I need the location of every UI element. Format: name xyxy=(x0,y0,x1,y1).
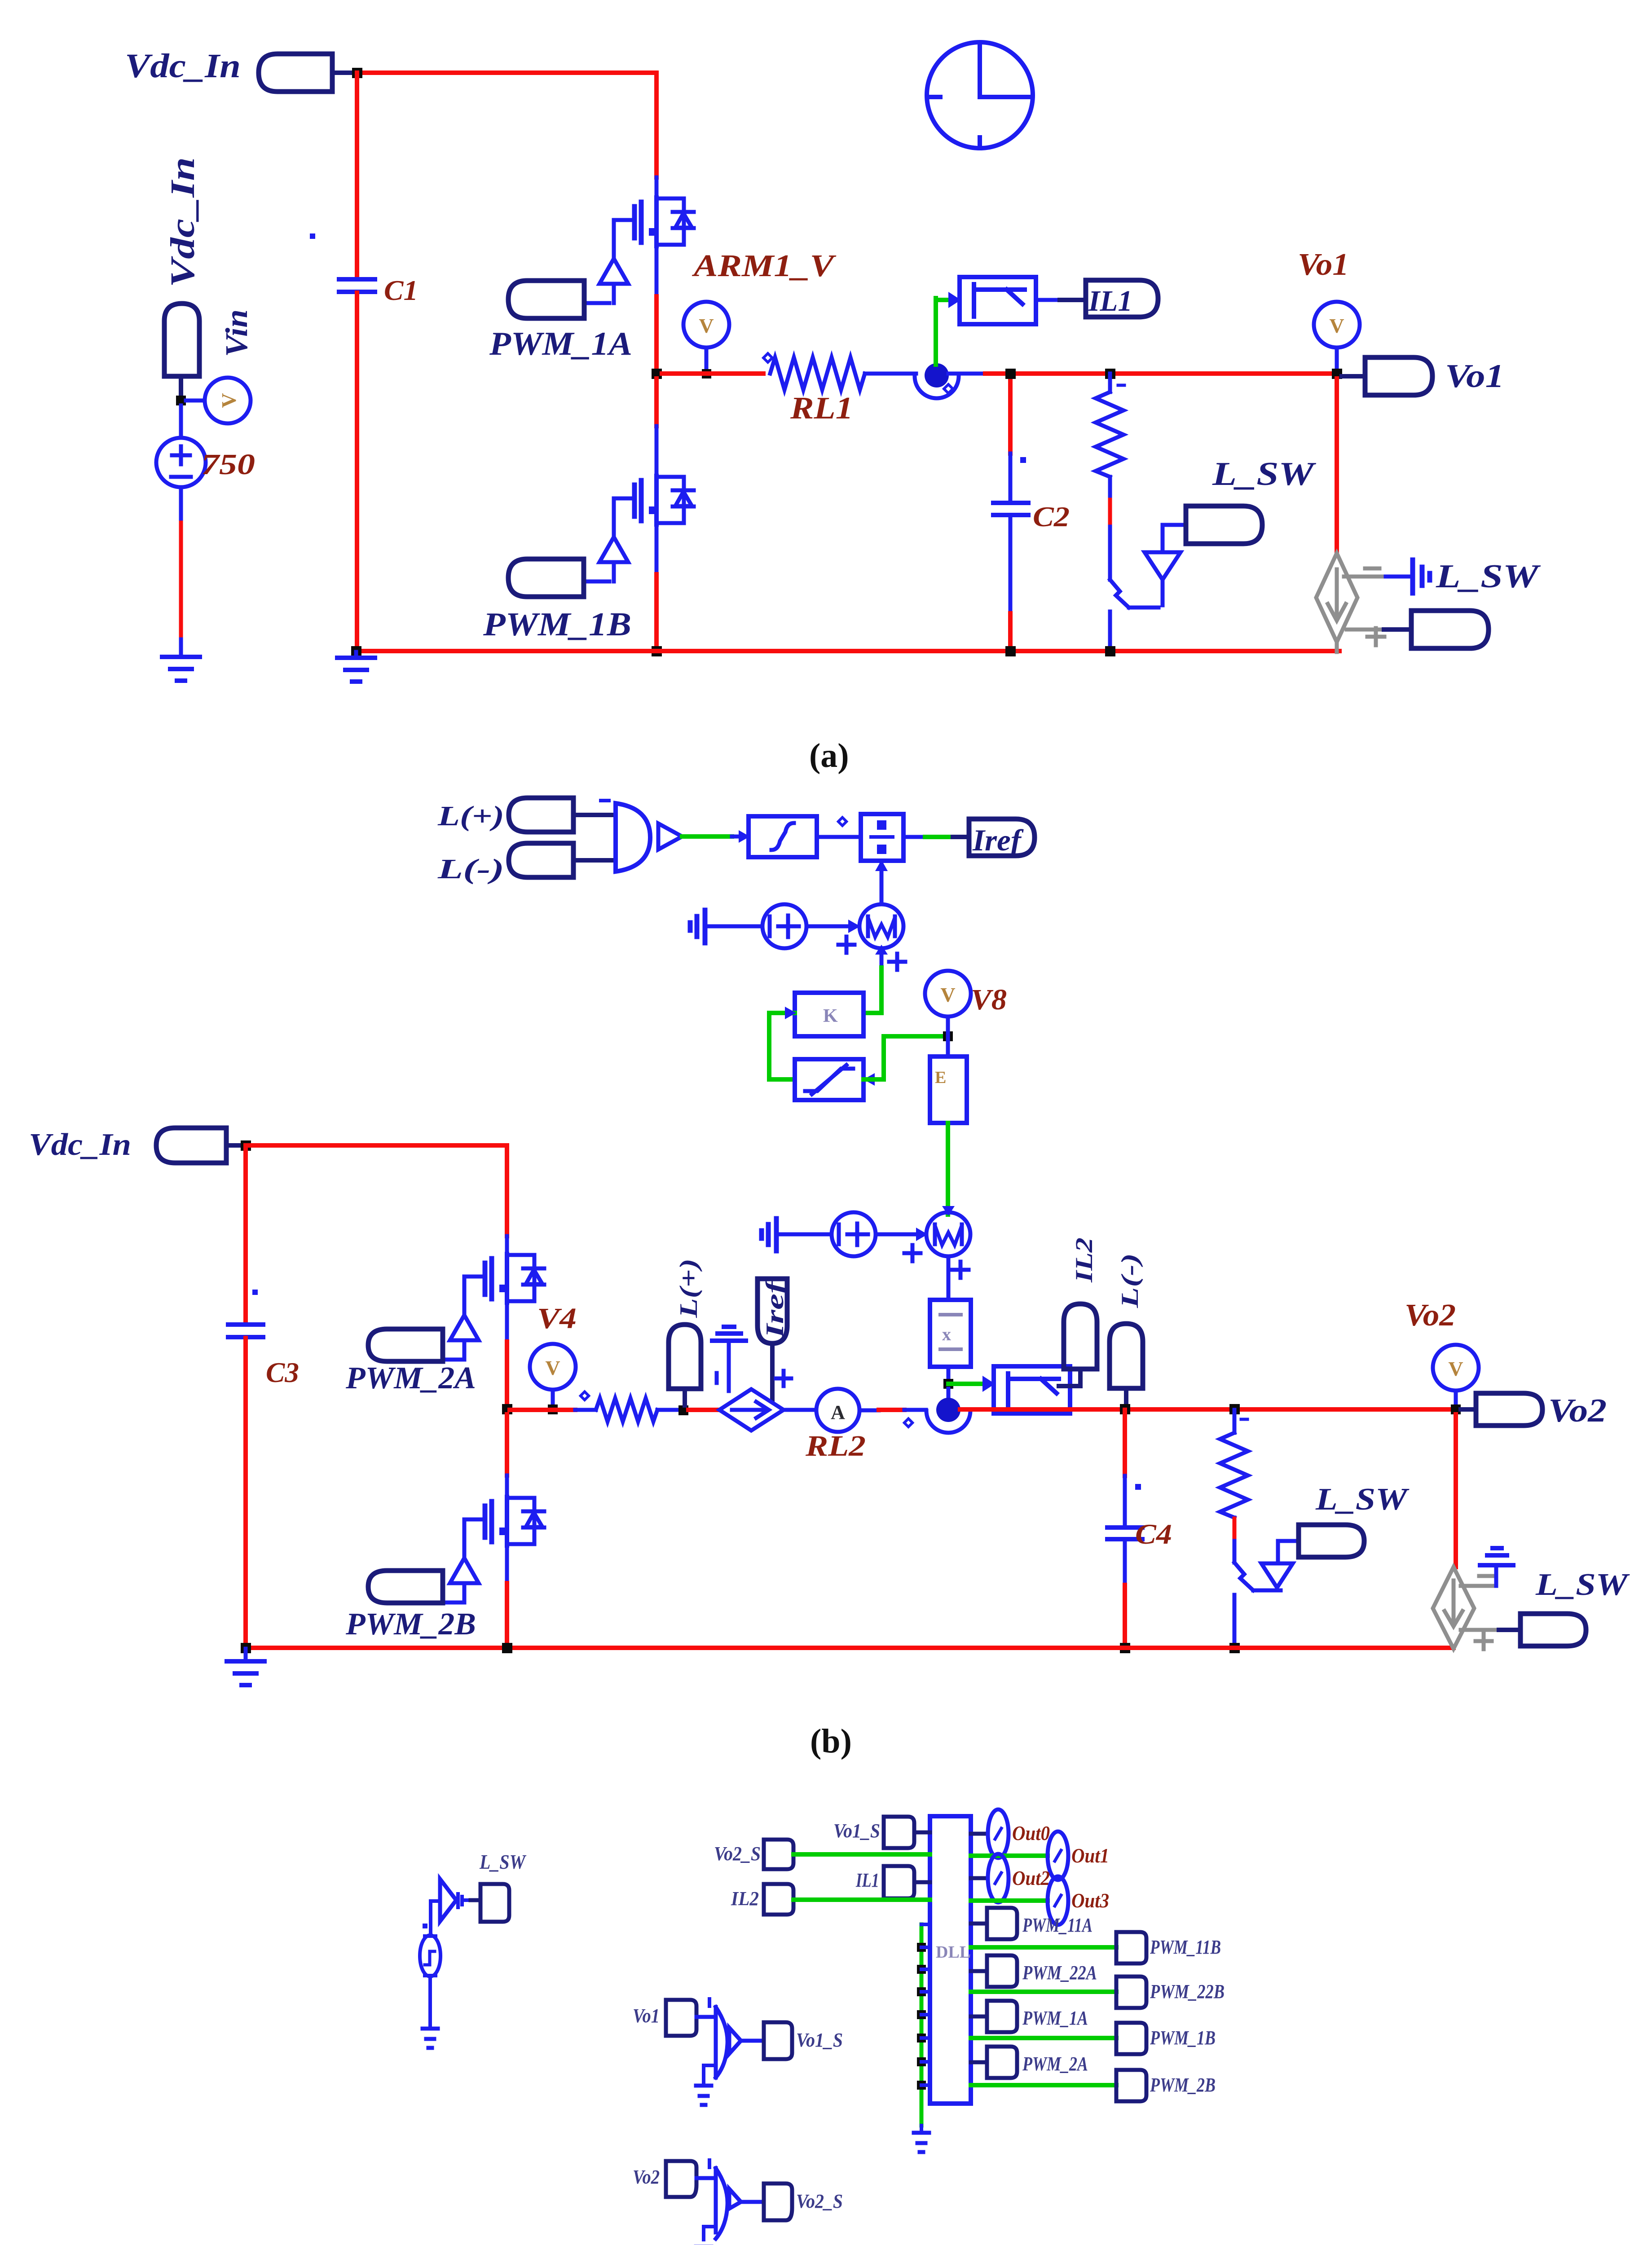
svg-text:Iref: Iref xyxy=(972,823,1024,857)
svg-text:PWM_1B: PWM_1B xyxy=(483,606,631,643)
tag IL2 vertical xyxy=(1064,1304,1097,1369)
wire Q4 gate to tag xyxy=(443,1601,464,1605)
transistor Q1 (PWM_1A MOSFET) xyxy=(599,198,694,303)
wire to Iref tag xyxy=(953,835,969,839)
svg-text:Vo1: Vo1 xyxy=(1298,247,1349,282)
wire top red (b) xyxy=(246,1143,507,1148)
svg-text:E: E xyxy=(935,1068,946,1087)
ground C1 xyxy=(337,658,375,682)
minus sign xyxy=(1365,567,1379,571)
svg-text:C1: C1 xyxy=(384,274,418,306)
polarity tick above summer xyxy=(601,799,609,802)
wire node to diamond red xyxy=(688,1408,719,1412)
wire Q2 top blue xyxy=(655,426,659,477)
wire C4 lower red xyxy=(1123,1585,1127,1648)
svg-text:PWM_1A: PWM_1A xyxy=(1022,2007,1088,2029)
svg-text:IL1: IL1 xyxy=(855,1869,879,1891)
tag Vo1_S input xyxy=(884,1817,914,1848)
wire DLL to Out3 green xyxy=(971,1898,1048,1903)
tag L(+) top xyxy=(509,798,573,832)
switch gate triangle (b) xyxy=(1261,1563,1293,1588)
wire C3 branch upper red xyxy=(243,1145,248,1324)
svg-text:RL1: RL1 xyxy=(790,391,853,426)
voltmeter Vo2 xyxy=(1433,1345,1479,1391)
bus bottom rail (b) red xyxy=(246,1646,1454,1650)
tag Vo1 xyxy=(666,2000,696,2036)
tag Iref vertical xyxy=(758,1279,787,1343)
wire Q1 top blue xyxy=(655,177,659,198)
switch foot xyxy=(1129,606,1159,610)
wire tag to node xyxy=(332,70,354,75)
tag PWM_1B xyxy=(1116,2023,1146,2054)
node DLL pin junction 7 xyxy=(917,2081,926,2090)
ground bars (W2 row) xyxy=(762,1219,776,1251)
svg-text:PWM_2A: PWM_2A xyxy=(1022,2053,1088,2075)
polarity mark C4 xyxy=(1135,1484,1141,1490)
wire Q4 top red xyxy=(505,1414,509,1475)
switch blade L_SW xyxy=(1110,580,1129,607)
current probe node IL2 xyxy=(926,1398,970,1433)
wire diamond plus gray (b) xyxy=(1461,1628,1499,1632)
voltmeter V4 xyxy=(530,1344,576,1390)
node Vo1 junction xyxy=(1332,369,1342,379)
wire C2 upper red xyxy=(1008,374,1013,453)
wire DLL to PWM_1B green xyxy=(971,2036,1116,2040)
wire DLL to PWM_2B green xyxy=(971,2083,1116,2087)
arrowhead into IL1 sensor xyxy=(948,292,961,308)
ground Vin xyxy=(162,657,200,681)
wire blue into integrator xyxy=(732,835,749,839)
wire junction to source xyxy=(179,405,183,438)
node meter junction xyxy=(702,369,711,379)
ground (Vo1 gate) xyxy=(696,2086,711,2105)
transistor Q4 (PWM_2B MOSFET) xyxy=(450,1497,544,1602)
wire blue before RL2 xyxy=(575,1408,596,1412)
gate body (Vo2) xyxy=(716,2168,727,2239)
wire Q3 source blue xyxy=(505,1301,509,1342)
ground bars (summer row) xyxy=(690,910,705,943)
wire DLL to Out1 green xyxy=(971,1853,1048,1858)
svg-text:Vdc_In: Vdc_In xyxy=(125,47,241,85)
polarity mark probe (b) xyxy=(904,1419,912,1427)
wire C4 blue upper xyxy=(1123,1476,1127,1527)
wire xbar down xyxy=(947,1367,951,1384)
svg-text:Vo1: Vo1 xyxy=(633,2005,660,2027)
arrowhead W2 xyxy=(916,1228,928,1241)
wire RL1 to probe xyxy=(865,372,916,376)
multiplier W2 xyxy=(926,1212,970,1256)
svg-text:PWM_22A: PWM_22A xyxy=(1022,1962,1097,1984)
wire load blue to switch xyxy=(1108,527,1112,580)
svg-text:Vo2_S: Vo2_S xyxy=(714,1843,761,1865)
plus sign W2 right xyxy=(952,1262,969,1278)
wire DLL to Out2 xyxy=(971,1876,987,1880)
capacitor C1 xyxy=(339,279,375,292)
ammeter A xyxy=(816,1389,859,1432)
capacitor C4 xyxy=(1107,1527,1142,1539)
svg-text:Out0: Out0 xyxy=(1012,1822,1050,1844)
svg-text:DLL: DLL xyxy=(936,1943,971,1962)
wire Q2 source blue xyxy=(655,523,659,574)
tag Vdc_In vertical (Vin branch) xyxy=(164,304,199,376)
minus tick left of diamond xyxy=(715,1373,719,1383)
svg-text:L(+): L(+) xyxy=(437,801,504,832)
svg-text:Vdc_In: Vdc_In xyxy=(29,1127,131,1162)
switch foot (b) xyxy=(1253,1589,1281,1593)
wire DLL to PWM_2A xyxy=(971,2060,987,2065)
wire source to triangle xyxy=(431,1901,440,1936)
gate triangle (Vo2) xyxy=(729,2189,741,2209)
current sensor block IL1 xyxy=(960,277,1036,324)
svg-text:(a): (a) xyxy=(809,737,849,775)
polarity mark source xyxy=(423,1924,427,1928)
svg-text:Vo1: Vo1 xyxy=(1445,358,1504,395)
svg-text:IL2: IL2 xyxy=(731,1888,759,1910)
svg-text:PWM_11A: PWM_11A xyxy=(1022,1914,1093,1936)
gain block K xyxy=(795,993,863,1036)
wire IL2 tag to sensor xyxy=(1059,1369,1080,1386)
wire tag stem xyxy=(179,376,183,397)
svg-text:(b): (b) xyxy=(810,1722,852,1760)
output port Out3 xyxy=(1048,1876,1068,1925)
wire Vo1 to tag xyxy=(1342,374,1365,379)
voltage source Vin 750 xyxy=(156,438,206,487)
wire voltmeter lead xyxy=(705,348,709,374)
wire switch to bus (b) xyxy=(1233,1595,1237,1648)
resistor load (b) xyxy=(1220,1433,1248,1518)
svg-text:L_SW: L_SW xyxy=(1535,1567,1630,1602)
wire Q1 gate to tag xyxy=(584,301,609,305)
wire C2 blue upper xyxy=(1009,453,1013,502)
wire divider out blue xyxy=(903,835,925,839)
wire E top xyxy=(946,1036,950,1056)
node Q4 bus junction xyxy=(502,1643,512,1653)
wire gnd stem to diamond xyxy=(727,1343,731,1391)
wire source to ground (c) xyxy=(428,1976,432,2028)
wire plus to W1 xyxy=(806,924,854,929)
wire junction to probe (b) xyxy=(947,1389,951,1397)
wire red segment to probe xyxy=(879,1408,904,1412)
wire DLL to PWM_1A xyxy=(971,2015,987,2019)
current probe node IL1 xyxy=(915,363,959,398)
wire gate to Vo2_S xyxy=(741,2200,764,2204)
svg-text:ARM1_V: ARM1_V xyxy=(692,249,837,283)
limiter block xyxy=(795,1059,863,1100)
input wedge W1 bottom xyxy=(875,945,888,955)
wire top red vertical to Q1 xyxy=(654,73,659,177)
polarity mark C3 xyxy=(252,1290,258,1295)
output port Out1 xyxy=(1048,1831,1068,1880)
svg-text:C3: C3 xyxy=(266,1356,299,1388)
wire minus blue up (b) xyxy=(1494,1568,1498,1586)
wire stub to ground xyxy=(179,639,183,656)
clock symbol xyxy=(927,42,1033,148)
wire blue to probe xyxy=(904,1408,926,1412)
wire rail red to Vo1 xyxy=(985,371,1337,376)
svg-text:L(-): L(-) xyxy=(1116,1253,1143,1308)
capacitor C2 xyxy=(993,503,1028,515)
summer block (subtractor) xyxy=(616,803,650,872)
output port Out2 xyxy=(988,1854,1009,1902)
plus sign W1 bottom xyxy=(889,954,905,970)
wire C2 blue lower xyxy=(1009,516,1013,613)
plus sign W1 left xyxy=(838,937,855,953)
wire W1 bottom blue stub xyxy=(880,948,884,968)
node C3 bus junction xyxy=(241,1643,251,1653)
wire triangle stub xyxy=(1161,580,1165,605)
wire V8 lead xyxy=(946,1017,950,1033)
svg-text:PWM_2B: PWM_2B xyxy=(1150,2074,1216,2096)
tag Vdc_In (a) xyxy=(259,54,332,92)
summing circle (I+) row1 xyxy=(762,904,806,948)
ground (c source) xyxy=(423,2029,438,2048)
node C1 bus junction xyxy=(351,646,361,656)
wire plus2 to W2 xyxy=(876,1233,921,1237)
svg-text:PWM_2B: PWM_2B xyxy=(345,1607,476,1642)
wire diamond to ammeter xyxy=(784,1408,816,1412)
svg-text:Vo2: Vo2 xyxy=(1548,1392,1607,1429)
block 1/x (xbar) xyxy=(930,1300,971,1367)
voltmeter Vo1 xyxy=(1314,302,1360,348)
squarewave source (c) xyxy=(420,1935,441,1976)
wire IL1 to DLL xyxy=(914,1880,930,1884)
gate bars at apex xyxy=(458,1894,462,1907)
svg-text:IL2: IL2 xyxy=(1070,1237,1097,1283)
wire load stub (b) xyxy=(1233,1410,1237,1433)
wire tag to node (b) xyxy=(226,1143,242,1148)
svg-text:C2: C2 xyxy=(1033,501,1070,533)
wire tag to triangle xyxy=(1163,525,1186,552)
wire V4 lead xyxy=(551,1390,555,1409)
wire C1 branch upper red xyxy=(355,73,359,278)
wire Q4 source blue xyxy=(505,1544,509,1583)
wire Q4 top blue xyxy=(505,1475,509,1498)
node DLL pin junction 6 xyxy=(917,2057,926,2066)
wire junction to voltmeter xyxy=(186,399,205,403)
tag L_SW output (a) xyxy=(1411,611,1489,648)
tag IL1 input xyxy=(884,1866,914,1898)
svg-text:Vo2_S: Vo2_S xyxy=(796,2190,843,2212)
wire divider out green xyxy=(925,835,953,839)
wire gate input2 to ground xyxy=(704,2065,716,2085)
svg-text:IL1: IL1 xyxy=(1088,285,1132,317)
wire DLL to PWM_11A xyxy=(971,1922,987,1926)
summing circle (I+) row2 xyxy=(832,1212,876,1256)
node DLL pin junction 2 xyxy=(917,1965,926,1974)
svg-text:V4: V4 xyxy=(537,1302,577,1335)
wire C4 upper red xyxy=(1123,1410,1127,1476)
wire C4 blue lower xyxy=(1123,1540,1127,1585)
wire Q1 to ARM node red xyxy=(654,296,659,374)
plus sign (b) xyxy=(1476,1633,1492,1649)
wire Vo1_S to DLL xyxy=(914,1831,930,1835)
transistor Q2 (PWM_1B MOSFET) xyxy=(599,476,694,581)
wire divider bottom input xyxy=(880,861,884,904)
tag Iref xyxy=(969,819,1035,856)
wire C2 lower red xyxy=(1008,613,1013,651)
tag L(-) top xyxy=(509,843,573,877)
wire Iref stem xyxy=(770,1343,775,1400)
arrowhead limiter input xyxy=(863,1073,875,1086)
svg-text:L_SW: L_SW xyxy=(479,1850,527,1873)
arrowhead integrator xyxy=(739,830,750,843)
wire Vo2 to gate xyxy=(696,2176,715,2180)
wire source to ground red xyxy=(179,523,183,639)
polarity mark RL1 right xyxy=(944,384,953,393)
minus sign (b) xyxy=(1479,1574,1493,1578)
tag IL1 xyxy=(1086,280,1158,317)
wire RL2 to L(+) node xyxy=(657,1408,683,1412)
wire tag to triangle (b) xyxy=(1278,1541,1299,1563)
bus bottom rail (a) red xyxy=(356,649,1339,653)
wire green into sensor xyxy=(936,298,948,302)
svg-text:Iref: Iref xyxy=(761,1278,789,1338)
polarity mark RL1 left xyxy=(763,353,772,362)
arrowhead K input xyxy=(785,1007,796,1019)
wire top red horizontal xyxy=(357,70,656,75)
ground DLL xyxy=(914,2133,929,2152)
wire W1 bottom green xyxy=(879,968,884,1013)
wire Q3 gate to tag xyxy=(443,1358,464,1362)
plus sign W2 left xyxy=(904,1245,921,1261)
resistor load (a) xyxy=(1096,392,1123,477)
wire probe to rail red (b) xyxy=(960,1407,1456,1412)
wire stub C3 ground xyxy=(244,1649,248,1661)
wire K out green xyxy=(863,1011,881,1015)
wire DLL to PWM_22A xyxy=(971,1969,987,1973)
node V8 junction xyxy=(943,1031,953,1041)
node DLL pin junction 4 xyxy=(917,2010,926,2019)
integrator block xyxy=(749,816,817,857)
tag Vo2_S xyxy=(764,2183,792,2220)
tag Vo2_S input xyxy=(764,1840,793,1869)
svg-text:PWM_11B: PWM_11B xyxy=(1150,1936,1221,1958)
wire green to integrator xyxy=(682,834,732,839)
wire gate to Vo1_S xyxy=(741,2039,764,2043)
arrowhead W1 xyxy=(848,920,860,933)
dependent current source diamond (blue) xyxy=(719,1389,784,1431)
node load rail junction (b) xyxy=(1229,1404,1240,1414)
wire minus blue xyxy=(1386,575,1410,579)
tag IL2 input xyxy=(764,1884,793,1915)
tag PWM_2A xyxy=(987,2047,1017,2078)
wire green to sensor (b) xyxy=(948,1382,982,1386)
svg-text:L_SW: L_SW xyxy=(1212,456,1317,493)
wire Q2 gate to tag xyxy=(584,580,609,584)
node Vo2 junction xyxy=(1451,1404,1461,1414)
wire Vo1 meter lead xyxy=(1335,348,1339,374)
svg-text:RL2: RL2 xyxy=(805,1430,866,1462)
wire Q3 top red xyxy=(505,1145,509,1236)
svg-text:Out1: Out1 xyxy=(1071,1844,1109,1867)
node V4 junction xyxy=(548,1404,558,1414)
output port Out0 xyxy=(988,1809,1009,1858)
node Q2 bus junction xyxy=(652,646,662,656)
svg-text:C4: C4 xyxy=(1135,1518,1172,1550)
svg-text:K: K xyxy=(823,1006,838,1026)
tag PWM_1A xyxy=(508,281,584,318)
tag PWM_2B xyxy=(368,1571,443,1603)
svg-text:Vo1_S: Vo1_S xyxy=(796,2029,843,2051)
wire gnd to plus circle xyxy=(706,924,762,929)
svg-text:Vo2: Vo2 xyxy=(633,2166,660,2188)
wire W2 to xbar xyxy=(947,1256,951,1300)
wire IL2 to DLL green xyxy=(793,1897,930,1902)
wire plus navy (b) xyxy=(1499,1628,1520,1632)
wire limiter right green xyxy=(863,1036,946,1079)
wire probe to rail blue xyxy=(948,372,985,376)
wire rail red ARM2 to RL2 xyxy=(510,1408,575,1412)
wire Vo2_S to DLL green xyxy=(793,1852,930,1857)
wire stub C1 ground xyxy=(354,652,358,657)
block E xyxy=(930,1056,967,1123)
wire DLL to Out0 xyxy=(971,1832,987,1836)
tag L_SW (load b) xyxy=(1299,1525,1364,1557)
tag L_SW (c) xyxy=(480,1884,509,1922)
arrow inside diamond (b) xyxy=(1445,1580,1463,1626)
wire C3 branch lower red xyxy=(243,1338,248,1648)
svg-text:x: x xyxy=(942,1324,951,1344)
wire DLL to PWM_11B green xyxy=(971,1945,1116,1950)
tag L_SW output (b) xyxy=(1520,1614,1586,1646)
mark diamond small xyxy=(838,818,846,826)
wire triangle to tag xyxy=(463,1898,471,1902)
wire L(-) tag stem xyxy=(1124,1388,1128,1405)
tag Vdc_In (b) xyxy=(156,1128,226,1163)
node load rail junction xyxy=(1105,369,1115,379)
arrow inside diamond xyxy=(1328,569,1346,621)
tag L(+) vertical xyxy=(669,1325,701,1389)
resistor RL2 xyxy=(596,1398,657,1422)
tag L(-) vertical xyxy=(1110,1324,1143,1388)
svg-text:L(-): L(-) xyxy=(437,854,504,885)
wire load blue to switch (b) xyxy=(1233,1541,1237,1563)
svg-text:PWM_1A: PWM_1A xyxy=(489,326,632,362)
svg-text:Vo1_S: Vo1_S xyxy=(833,1820,880,1842)
svg-text:Vdc_In: Vdc_In xyxy=(164,157,202,287)
switch gate triangle xyxy=(1145,552,1181,580)
node load bus junction xyxy=(1105,646,1115,656)
wire ARM to RL1 red xyxy=(662,371,763,376)
tag PWM_22A xyxy=(987,1955,1017,1987)
divider block xyxy=(861,814,903,861)
wire Q4 to bus red xyxy=(505,1583,509,1648)
wire probe green vertical xyxy=(934,298,938,365)
polarity mark RL2 left xyxy=(581,1392,589,1400)
wire Q3 to rail red xyxy=(505,1342,509,1409)
svg-text:A: A xyxy=(831,1401,845,1423)
value mark C1 plus xyxy=(310,233,315,239)
node DLL pin junction 3 xyxy=(917,1987,926,1996)
gate tick xyxy=(708,1999,711,2006)
svg-text:L(+): L(+) xyxy=(675,1259,703,1318)
wire Vo1 down red xyxy=(1335,379,1339,553)
wire load below resistor xyxy=(1108,477,1112,500)
svg-text:PWM_2A: PWM_2A xyxy=(345,1361,476,1395)
voltmeter Vin xyxy=(205,378,251,423)
tag Vo2 xyxy=(1476,1393,1542,1426)
svg-text:PWM_1B: PWM_1B xyxy=(1150,2027,1216,2049)
wire load stub xyxy=(1108,374,1112,392)
node load bus junction (b) xyxy=(1229,1643,1240,1653)
voltmeter V8 xyxy=(925,971,971,1017)
svg-text:V8: V8 xyxy=(971,983,1007,1016)
node C4 rail junction xyxy=(1120,1404,1130,1414)
tag PWM_2B xyxy=(1116,2070,1146,2101)
wire Q3 top blue xyxy=(505,1236,509,1255)
wire sensor to tag xyxy=(1036,298,1060,302)
ground small above (b diamond) xyxy=(1480,1548,1513,1565)
